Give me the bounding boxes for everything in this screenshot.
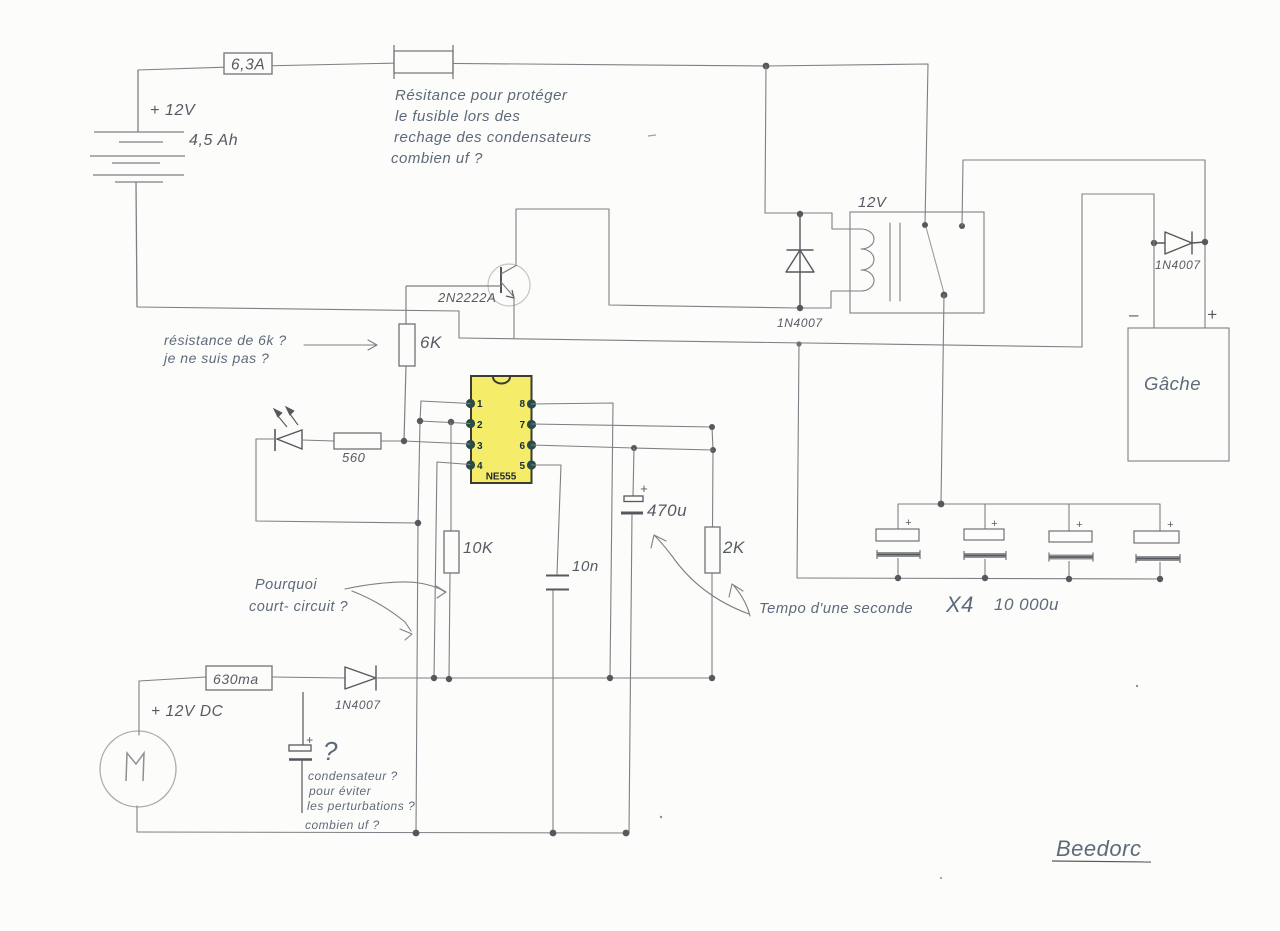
wire: pin4 down to motor rail bbox=[434, 462, 470, 678]
note: resistance pour proteger le fusible bbox=[391, 87, 592, 167]
svg-text:combien uf ?: combien uf ? bbox=[391, 150, 483, 167]
resistor R3 560 bbox=[334, 433, 381, 449]
node: pin6 / 470u junction bbox=[631, 445, 637, 451]
node: C6 bottom bbox=[1066, 576, 1072, 582]
pin 8 bbox=[519, 399, 536, 410]
wire: junction down to relay coil top bbox=[765, 66, 766, 213]
wire: pin7 right and down to 2K bbox=[532, 424, 714, 527]
wire: fuse to diode bbox=[272, 677, 345, 678]
wire: emitter down bbox=[513, 297, 515, 338]
svg-text:8: 8 bbox=[519, 399, 525, 410]
pin 3 bbox=[466, 440, 483, 452]
svg-text:pour éviter: pour éviter bbox=[308, 784, 372, 798]
resistor R2 6K bbox=[399, 286, 415, 441]
wire: pin3 to 560 resistor bbox=[381, 441, 470, 444]
node: C7 bottom bbox=[1157, 576, 1163, 582]
svg-text:10 000u: 10 000u bbox=[994, 595, 1059, 614]
svg-text:6K: 6K bbox=[420, 333, 442, 352]
node: pin3 / 6K junction bbox=[401, 438, 407, 444]
arrow: note down right bbox=[352, 591, 412, 640]
svg-text:12V: 12V bbox=[858, 194, 888, 211]
arrow: tempo to 470u bbox=[651, 535, 749, 614]
svg-text:6,3A: 6,3A bbox=[231, 57, 265, 74]
node: pin2 to 10K junction bbox=[448, 419, 454, 425]
wire: motor bottom lead bbox=[136, 806, 138, 832]
svg-text:2K: 2K bbox=[722, 538, 745, 557]
wire: +12V top rail from battery to relay contact bbox=[138, 63, 928, 225]
transistor Q1 2N2222A bbox=[406, 264, 530, 306]
capacitor C1 10n bbox=[546, 576, 569, 834]
motor M1 bbox=[100, 731, 176, 807]
pin 4 bbox=[466, 460, 483, 472]
node: rail A 2K end bbox=[709, 675, 715, 681]
svg-text:les perturbations ?: les perturbations ? bbox=[307, 799, 415, 813]
node: C4 bottom bbox=[895, 575, 901, 581]
wire: capacitor bank top bus bbox=[898, 503, 1160, 505]
svg-text:1N4007: 1N4007 bbox=[1155, 258, 1201, 272]
note: resistance de 6k bbox=[162, 332, 287, 366]
capacitor C7 10000u bbox=[1134, 504, 1180, 579]
relay core bbox=[890, 223, 900, 301]
wire: ground riser up to D2 anode bbox=[1082, 194, 1154, 347]
node: rail B 10n bbox=[550, 830, 557, 837]
capacitor C6 10000u bbox=[1049, 504, 1093, 579]
wire: relay common down to capacitor bank bbox=[941, 295, 944, 504]
node: relay diode top bbox=[797, 211, 803, 217]
node: rail A 10K bbox=[446, 676, 452, 682]
svg-text:3: 3 bbox=[477, 441, 483, 452]
capacitor C5 10000u bbox=[964, 504, 1006, 578]
wire: ground line from rail to right riser bbox=[459, 338, 1082, 347]
diode D4 1N4007 (motor) bbox=[345, 666, 376, 690]
svg-text:2: 2 bbox=[477, 420, 483, 431]
diode D2 1N4007 (top right) bbox=[1154, 232, 1205, 254]
svg-text:+: + bbox=[640, 481, 648, 496]
svg-text:je ne suis pas ?: je ne suis pas ? bbox=[162, 350, 269, 366]
capacitor C2 470u bbox=[621, 448, 643, 833]
svg-text:Pourquoi: Pourquoi bbox=[255, 577, 317, 593]
svg-text:5: 5 bbox=[519, 461, 525, 472]
svg-text:+: + bbox=[306, 733, 314, 747]
resistor R1 (fuse protection, no value) bbox=[394, 45, 453, 79]
relay K1 coil bracket wires bbox=[765, 213, 861, 229]
signature Beedorc bbox=[1052, 836, 1151, 862]
IC U1 NE555 bbox=[471, 376, 532, 483]
wire: rail A continues to 2K bbox=[376, 677, 712, 679]
door strike box Gache bbox=[1128, 328, 1229, 461]
svg-text:4,5 Ah: 4,5 Ah bbox=[189, 132, 238, 149]
pin 6 bbox=[519, 440, 536, 452]
svg-text:le fusible lors des: le fusible lors des bbox=[395, 108, 520, 125]
pin 5 bbox=[519, 460, 536, 472]
node: C5 bottom bbox=[982, 575, 988, 581]
svg-text:–: – bbox=[1128, 305, 1139, 324]
node: D2 anode bbox=[1151, 240, 1157, 246]
node: rail A pin4 bbox=[431, 675, 437, 681]
node: top rail junction to relay coil bbox=[763, 63, 770, 70]
stray speck bbox=[660, 816, 662, 818]
wire: motor rail (rail A) bbox=[139, 677, 206, 681]
relay switch bbox=[922, 222, 965, 298]
svg-text:+: + bbox=[1076, 519, 1083, 531]
svg-text:4: 4 bbox=[477, 461, 483, 472]
relay coil bbox=[861, 229, 874, 291]
svg-text:10n: 10n bbox=[572, 558, 599, 575]
wire: motor top lead bbox=[138, 681, 140, 735]
svg-text:Tempo d'une seconde: Tempo d'une seconde bbox=[759, 601, 913, 617]
wire: pins 1-2 junction down to bottom rail bbox=[416, 401, 421, 833]
capacitor C3 (decoupling, unknown) bbox=[289, 692, 312, 813]
svg-text:?: ? bbox=[323, 736, 338, 766]
svg-text:+: + bbox=[1207, 305, 1218, 324]
svg-text:1: 1 bbox=[477, 399, 483, 410]
svg-text:Résitance pour protéger: Résitance pour protéger bbox=[395, 87, 568, 104]
resistor R5 2K bbox=[705, 527, 720, 678]
wire: pin5 down to 10n bbox=[532, 465, 562, 574]
node: rail B 470u bbox=[623, 830, 630, 837]
svg-text:NE555: NE555 bbox=[486, 472, 517, 483]
svg-text:630ma: 630ma bbox=[213, 671, 259, 687]
arrow: note to 6K resistor bbox=[304, 340, 377, 350]
svg-text:1N4007: 1N4007 bbox=[335, 698, 381, 712]
wire: relay NO contact up and right to diode D2 bbox=[962, 160, 1205, 328]
battery BT1 4,5Ah bbox=[90, 70, 185, 307]
svg-text:rechage des condensateurs: rechage des condensateurs bbox=[394, 129, 592, 146]
node: rail A pin8 bbox=[607, 675, 613, 681]
svg-text:6: 6 bbox=[519, 441, 525, 452]
capacitor C4 10000u bbox=[876, 504, 920, 578]
svg-text:+: + bbox=[1167, 519, 1174, 531]
svg-text:condensateur ?: condensateur ? bbox=[308, 769, 398, 783]
wire: pin8 down to motor rail bbox=[532, 403, 614, 678]
svg-text:7: 7 bbox=[519, 420, 525, 431]
wire: LED anode to 560 bbox=[302, 440, 334, 441]
node: pins 1-2 junction bbox=[417, 418, 423, 424]
relay K1 box bbox=[850, 212, 984, 313]
wire: D2 anode down to strike - terminal bbox=[1153, 243, 1155, 328]
pin 1 bbox=[466, 399, 483, 410]
wire: bottom rail (rail B) bbox=[137, 832, 629, 833]
stray pencil mark bbox=[648, 135, 656, 136]
LED D3 bbox=[275, 408, 302, 451]
stray speck bbox=[940, 877, 942, 879]
svg-text:560: 560 bbox=[342, 450, 366, 465]
svg-text:10K: 10K bbox=[463, 540, 494, 557]
wire: battery negative rail to ground line bbox=[137, 307, 459, 338]
svg-text:+: + bbox=[991, 518, 998, 530]
svg-text:1N4007: 1N4007 bbox=[777, 316, 823, 330]
node: top bus / relay common bbox=[938, 501, 945, 508]
svg-text:Beedorc: Beedorc bbox=[1056, 836, 1141, 861]
node: D2 cathode bbox=[1202, 239, 1208, 245]
pin 7 bbox=[519, 420, 536, 431]
node: LED return junction bbox=[415, 520, 421, 526]
svg-text:470u: 470u bbox=[647, 501, 687, 520]
note: pourquoi court-circuit bbox=[249, 577, 348, 615]
node: relay diode bottom bbox=[797, 305, 803, 311]
arrow: tempo to 2K bbox=[729, 584, 750, 616]
svg-text:+ 12V DC: + 12V DC bbox=[151, 703, 224, 720]
pin 2 bbox=[466, 419, 483, 431]
wire: bottom bus riser to ground line bbox=[797, 344, 799, 578]
fuse F1 6,3A bbox=[224, 53, 272, 74]
wire: collector loop to relay diode bottom bbox=[516, 209, 861, 308]
arrow: note to 10K wire bbox=[345, 582, 446, 598]
svg-text:résistance de 6k ?: résistance de 6k ? bbox=[164, 332, 287, 348]
fuse F2 630ma bbox=[206, 666, 272, 690]
svg-text:2N2222A: 2N2222A bbox=[437, 290, 496, 305]
wire: pin2 to junction bbox=[420, 421, 470, 424]
node: pin6-pin7 junction bbox=[710, 447, 716, 453]
wire: pin1 to left bend bbox=[421, 401, 470, 404]
node: rail B LED/pin1 wire bbox=[413, 830, 420, 837]
wire: LED cathode return loop bbox=[256, 439, 418, 523]
node: pin7 corner bbox=[709, 424, 715, 430]
svg-text:combien uf ?: combien uf ? bbox=[305, 818, 380, 832]
node: ground line junction bbox=[796, 341, 801, 346]
diode D1 1N4007 across relay coil bbox=[786, 214, 814, 308]
svg-text:court- circuit ?: court- circuit ? bbox=[249, 599, 348, 615]
wire: capacitor bank bottom bus bbox=[797, 578, 1160, 579]
wire: pin6 right to junction bbox=[532, 445, 714, 450]
svg-text:+ 12V: + 12V bbox=[150, 102, 196, 119]
svg-text:Gâche: Gâche bbox=[1144, 373, 1201, 394]
resistor R4 10K bbox=[444, 422, 459, 679]
svg-text:X4: X4 bbox=[945, 592, 974, 617]
svg-text:+: + bbox=[905, 517, 912, 529]
note: condensateur pour eviter les perturbations bbox=[305, 769, 415, 832]
stray speck bbox=[1136, 685, 1138, 687]
